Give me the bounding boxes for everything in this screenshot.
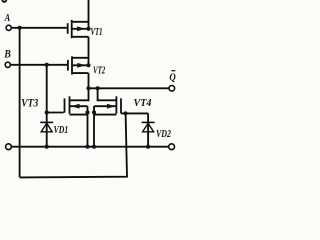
svg-text:VD1: VD1 bbox=[54, 125, 69, 136]
svg-text:VT1: VT1 bbox=[91, 27, 103, 38]
svg-text:Q: Q bbox=[169, 73, 176, 84]
svg-text:B: B bbox=[3, 49, 11, 61]
svg-text:A: A bbox=[4, 13, 11, 24]
svg-text:VT3: VT3 bbox=[21, 97, 38, 109]
svg-text:VT4: VT4 bbox=[134, 97, 152, 109]
svg-text:VD2: VD2 bbox=[156, 129, 171, 140]
svg-text:VT2: VT2 bbox=[93, 65, 106, 76]
